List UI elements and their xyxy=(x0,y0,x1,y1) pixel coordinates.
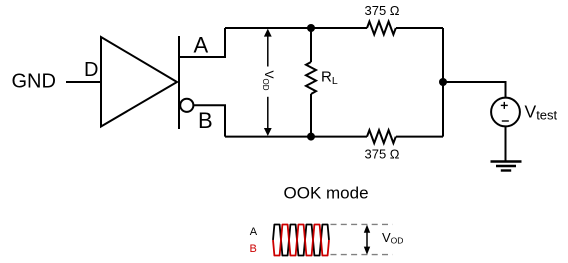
waveform trace A xyxy=(273,225,329,256)
resistor RL xyxy=(306,28,316,137)
junction dot mid xyxy=(439,78,447,86)
output bar xyxy=(178,36,180,129)
resistor R bottom 375 xyxy=(367,130,396,143)
svg-text:A: A xyxy=(250,226,258,238)
ground xyxy=(491,162,522,171)
svg-text:OOK mode: OOK mode xyxy=(284,183,369,202)
wire bottom rail right xyxy=(396,136,443,138)
junction dot bottom xyxy=(307,133,315,141)
svg-text:Vtest: Vtest xyxy=(525,102,558,123)
Vod arrow bottom xyxy=(364,225,370,255)
svg-text:VOD: VOD xyxy=(382,230,403,246)
wire top rail right xyxy=(396,27,443,29)
wire B xyxy=(193,105,225,136)
wire bottom rail left xyxy=(225,136,367,138)
resistor R top 375 xyxy=(367,22,396,35)
junction dot top xyxy=(307,24,315,32)
svg-text:GND: GND xyxy=(12,71,56,93)
svg-text:A: A xyxy=(194,33,209,58)
wire source to ground xyxy=(505,126,507,161)
wire D input xyxy=(66,81,101,83)
wire right vertical xyxy=(442,28,444,137)
svg-text:B: B xyxy=(198,108,213,133)
dashed level bottom xyxy=(331,254,393,256)
waveform trace B xyxy=(273,225,329,256)
svg-text:375 Ω: 375 Ω xyxy=(365,147,400,162)
wire top rail left xyxy=(225,27,367,29)
svg-text:RL: RL xyxy=(321,69,338,88)
buffer U1 xyxy=(101,37,177,127)
dashed level top xyxy=(331,223,393,225)
wire A xyxy=(180,28,225,57)
svg-text:B: B xyxy=(250,243,257,255)
svg-text:D: D xyxy=(84,59,98,81)
svg-text:VOD: VOD xyxy=(261,71,276,91)
inversion bubble xyxy=(180,99,193,112)
wire to source xyxy=(443,82,506,98)
voltage source Vtest xyxy=(491,98,520,127)
svg-text:375 Ω: 375 Ω xyxy=(365,3,400,18)
Vod measurement arrow xyxy=(264,29,272,136)
